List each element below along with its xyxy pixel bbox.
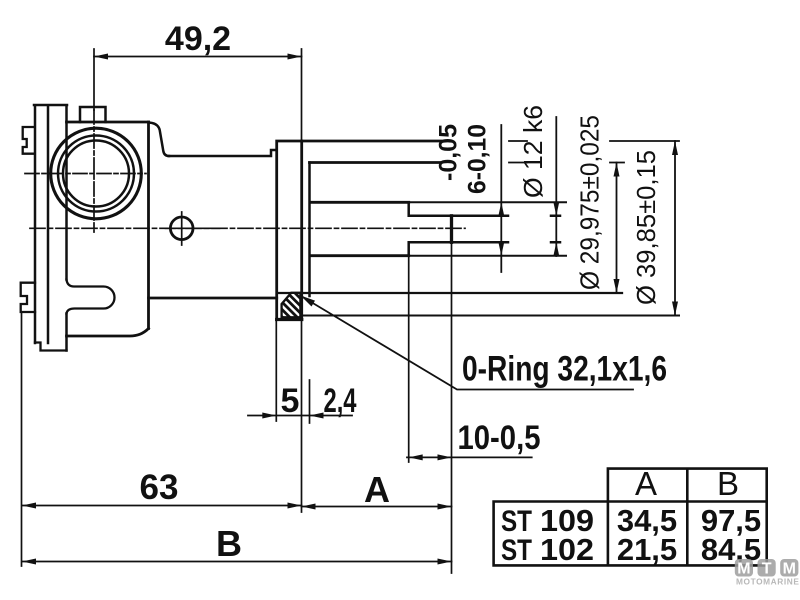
shaft bottom edge (dia 12) (310, 254, 409, 257)
port outer circle (51, 128, 142, 219)
arrow 10-0.5 left (409, 454, 423, 460)
arrow B left (22, 559, 36, 565)
shaft end extension (451, 242, 453, 573)
port inner circle (63, 141, 129, 207)
mounting tab bottom (21, 283, 35, 312)
svg-text:A: A (364, 469, 390, 510)
arrow A right (438, 504, 452, 510)
svg-text:63: 63 (140, 468, 179, 507)
shaft step extension (408, 256, 410, 462)
arrow 6 bottom (553, 242, 559, 256)
envelope line top (dia 39.85) (302, 140, 441, 143)
arrow 63 left (22, 503, 36, 509)
dim B line (22, 561, 452, 563)
svg-text:21,5: 21,5 (617, 532, 677, 567)
shaft top edge (dia 12) (310, 201, 409, 204)
leader line o-ring (301, 296, 633, 390)
flange bottom edge (277, 318, 302, 321)
envelope line 2 (dia 29.975) (310, 161, 441, 164)
port centerline vertical (93, 110, 95, 232)
dim 49.2 line (94, 56, 302, 58)
arrow 49.2 right (288, 54, 302, 60)
svg-text:Ø 39,85±0,15: Ø 39,85±0,15 (631, 150, 661, 305)
keyhole slot (67, 280, 115, 314)
dim 6 line (555, 117, 557, 256)
ear top right (149, 123, 170, 157)
arrow dia12 bottom (498, 242, 504, 256)
shaft centerline (30, 227, 465, 229)
svg-text:0-Ring 32,1x1,6: 0-Ring 32,1x1,6 (462, 350, 667, 389)
dim 49.2 left extension (93, 49, 95, 110)
arrow 49.2 left (94, 54, 108, 60)
svg-text:Ø 29,975±0,025: Ø 29,975±0,025 (575, 115, 605, 290)
svg-text:Ø 12 k6: Ø 12 k6 (518, 105, 548, 198)
arrow dia29.975 bottom (614, 279, 620, 293)
mounting flange (277, 141, 302, 320)
arrow dia29.975 top (614, 163, 620, 177)
table header box (608, 469, 767, 500)
dim 10-0.5 line (407, 456, 532, 458)
logo MTM square 1 (735, 559, 753, 578)
shaft end face (450, 216, 453, 243)
small hole crosshair (166, 212, 220, 245)
svg-text:M: M (783, 561, 796, 578)
dim A line (302, 506, 452, 508)
svg-text:MOTOMARINE: MOTOMARINE (736, 577, 799, 587)
svg-text:102: 102 (540, 532, 594, 567)
mounting tab top (23, 127, 35, 154)
left extension for 63/B (21, 312, 23, 566)
svg-text:49,2: 49,2 (165, 20, 231, 58)
envelope line bottom 2 (dia 29.975) (302, 292, 622, 294)
arrow dia39.85 bottom (672, 302, 678, 316)
leader arrowhead o-ring (301, 296, 316, 307)
o-ring groove hatched (282, 293, 301, 318)
dim 63 line (22, 505, 302, 507)
top boss (80, 107, 106, 122)
arrow A left (302, 504, 316, 510)
shaft step (407, 202, 410, 255)
arrow dia12 top (498, 202, 504, 216)
svg-text:M: M (737, 561, 750, 578)
svg-text:5: 5 (281, 382, 300, 420)
shaft end top edge (6 flat) (410, 215, 560, 218)
dim dia39.85 line (674, 141, 676, 316)
svg-text:B: B (216, 523, 242, 564)
pump backplate strip (34, 105, 67, 351)
body right edge (147, 122, 150, 329)
port centerline horizontal (25, 173, 146, 175)
arrow dia39.85 top (672, 141, 678, 155)
shaft end bottom edge (6 flat) (410, 241, 560, 244)
svg-text:B: B (717, 465, 739, 502)
envelope bottom (dia 39.85) (302, 315, 679, 317)
table main box (494, 502, 767, 566)
arrow 6 top (553, 202, 559, 216)
svg-text:2,4: 2,4 (324, 382, 357, 420)
svg-text:T: T (762, 561, 772, 578)
arrow 10-0.5 right (438, 454, 452, 460)
dim 5 / 2.4 (275, 321, 277, 421)
body bottom edge (67, 329, 149, 337)
svg-text:ST: ST (501, 534, 532, 567)
flange face extension (301, 49, 303, 512)
o-ring groove line (277, 292, 302, 294)
mid section bottom edge (149, 297, 277, 300)
foot step (35, 343, 67, 351)
arrow dim5 left (262, 413, 276, 419)
arrow 63 right (288, 503, 302, 509)
logo MTM square 2 (758, 559, 776, 578)
svg-text:A: A (635, 465, 657, 502)
svg-text:-0,05: -0,05 (435, 124, 463, 181)
dim dia12 line (500, 125, 502, 272)
body top edge (67, 121, 149, 124)
logo MTM square 3 (780, 559, 798, 578)
svg-text:10-0,5: 10-0,5 (458, 419, 541, 457)
dim dia29.975 line (616, 163, 618, 294)
mid section top edge (169, 150, 277, 156)
small hole (170, 217, 193, 240)
svg-text:6-0,10: 6-0,10 (464, 124, 492, 194)
arrow B right (438, 559, 452, 565)
port middle circle (58, 136, 134, 212)
envelope left face (308, 163, 311, 297)
arrow dim2.4 right (310, 413, 324, 419)
